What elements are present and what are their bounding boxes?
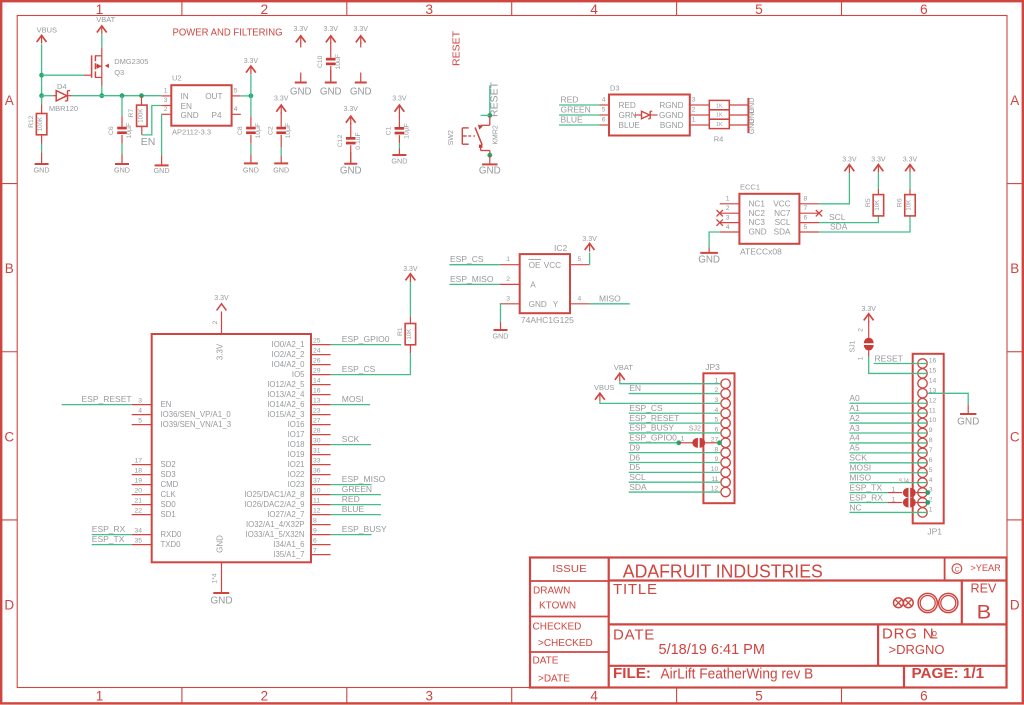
svg-text:ESP_CS: ESP_CS <box>342 364 376 374</box>
section title POWER AND FILTERING <box>173 28 283 39</box>
wire gate <box>42 74 84 76</box>
svg-text:3.3V: 3.3V <box>842 157 857 164</box>
svg-text:12: 12 <box>929 397 937 404</box>
frame row ticks left <box>1 184 17 520</box>
svg-text:16: 16 <box>929 358 937 365</box>
svg-text:35: 35 <box>134 537 142 544</box>
svg-text:1: 1 <box>681 436 685 443</box>
svg-text:D3: D3 <box>610 84 620 93</box>
svg-text:6: 6 <box>920 2 928 17</box>
svg-text:5: 5 <box>234 87 238 94</box>
svg-text:EN: EN <box>141 136 156 148</box>
ground under C10 <box>320 70 342 98</box>
net label BLUE <box>331 504 381 514</box>
svg-text:2: 2 <box>261 689 269 704</box>
svg-text:5: 5 <box>138 417 142 424</box>
ground under C6 <box>114 154 130 174</box>
svg-text:GGND: GGND <box>659 111 684 120</box>
jumper SJ1 <box>850 306 877 360</box>
wire ECC1 GND <box>709 232 720 248</box>
title block DATE value <box>613 626 765 658</box>
svg-text:1: 1 <box>929 507 933 514</box>
svg-text:ESP_CS: ESP_CS <box>450 254 484 264</box>
svg-text:10K: 10K <box>407 329 413 340</box>
svg-text:ESP_BUSY: ESP_BUSY <box>629 423 674 433</box>
svg-text:R5: R5 <box>865 198 872 207</box>
svg-text:2: 2 <box>164 106 168 113</box>
svg-text:22: 22 <box>134 507 142 514</box>
svg-text:IO25/DAC1/A2_8: IO25/DAC1/A2_8 <box>244 490 304 499</box>
title block CHECKED cell <box>533 621 593 649</box>
svg-text:R1: R1 <box>397 327 404 336</box>
ground under C2 <box>273 156 289 174</box>
op-amp U2 AP2112-3.3 <box>161 74 240 137</box>
svg-text:3.3V: 3.3V <box>344 106 359 113</box>
svg-text:36: 36 <box>313 467 321 474</box>
svg-text:REV: REV <box>971 581 997 596</box>
svg-text:24: 24 <box>313 347 321 354</box>
svg-text:C: C <box>955 567 960 574</box>
svg-text:1: 1 <box>692 117 696 124</box>
svg-text:ESP_BUSY: ESP_BUSY <box>342 524 387 534</box>
svg-text:SD3: SD3 <box>161 470 176 479</box>
capacitor C2 10uF <box>267 96 292 157</box>
net label ESP_RX at JP1 with jumper <box>849 492 930 507</box>
svg-text:ESP_MISO: ESP_MISO <box>342 474 386 484</box>
svg-text:10: 10 <box>929 417 937 424</box>
svg-text:SJ2: SJ2 <box>689 426 701 433</box>
svg-text:GND: GND <box>243 165 259 174</box>
svg-text:VCC: VCC <box>773 199 790 208</box>
net label ESP_BUSY <box>331 524 387 534</box>
svg-text:12: 12 <box>313 507 321 514</box>
svg-text:GND: GND <box>957 417 979 428</box>
svg-text:VBUS: VBUS <box>594 383 614 392</box>
svg-text:A: A <box>530 281 536 290</box>
svg-text:PAGE: 1/1: PAGE: 1/1 <box>912 666 985 682</box>
svg-text:>YEAR: >YEAR <box>970 563 1001 573</box>
svg-text:GND: GND <box>698 255 720 266</box>
title block REV cell <box>971 581 997 624</box>
svg-text:3: 3 <box>692 97 696 104</box>
svg-text:D: D <box>1010 598 1020 613</box>
svg-text:VCC: VCC <box>544 261 561 270</box>
svg-text:POWER AND FILTERING: POWER AND FILTERING <box>173 28 283 39</box>
svg-text:1: 1 <box>96 689 104 704</box>
wire Q3 drain to node <box>101 86 103 96</box>
svg-text:10µF: 10µF <box>126 123 133 139</box>
supply VBAT <box>96 15 115 34</box>
frame column labels top <box>96 2 928 17</box>
svg-text:KTOWN: KTOWN <box>539 601 576 612</box>
svg-text:SCL: SCL <box>829 212 846 222</box>
svg-text:P4: P4 <box>212 111 222 120</box>
net label RED <box>331 494 381 504</box>
svg-text:8: 8 <box>929 437 933 444</box>
svg-text:SCK: SCK <box>342 434 360 444</box>
svg-text:3.3V: 3.3V <box>871 157 886 164</box>
svg-text:3.3V: 3.3V <box>216 343 225 360</box>
net label SDA at JP3 <box>629 482 721 492</box>
capacitor C10 10uF <box>317 26 342 82</box>
svg-text:GND: GND <box>154 166 170 175</box>
svg-text:A0: A0 <box>849 393 860 403</box>
net label RED at D3 <box>559 95 600 105</box>
net label SCL at JP3 <box>629 472 721 482</box>
svg-text:ESP_GPIO0: ESP_GPIO0 <box>629 433 677 443</box>
svg-text:3.3V: 3.3V <box>354 26 369 33</box>
title block DRG cell <box>882 625 944 657</box>
svg-text:3: 3 <box>425 689 433 704</box>
svg-text:C12: C12 <box>337 135 344 148</box>
svg-text:GND: GND <box>749 228 767 237</box>
svg-text:MISO: MISO <box>849 472 871 482</box>
svg-text:IO32/A1_4/X32P: IO32/A1_4/X32P <box>246 520 305 529</box>
svg-text:1: 1 <box>506 256 510 263</box>
svg-text:C2: C2 <box>267 126 274 135</box>
svg-text:SJ1: SJ1 <box>850 340 857 352</box>
net label BLUE at D3 <box>559 115 600 125</box>
svg-text:3.3V: 3.3V <box>244 58 259 65</box>
svg-text:ESP_RX: ESP_RX <box>92 524 126 534</box>
svg-text:4: 4 <box>726 224 730 231</box>
svg-text:DRG N: DRG N <box>882 625 934 642</box>
svg-text:MOSI: MOSI <box>849 463 871 473</box>
svg-text:10uF: 10uF <box>335 54 342 70</box>
svg-text:4: 4 <box>138 407 142 414</box>
supply VBUS <box>37 25 57 43</box>
svg-text:27: 27 <box>313 417 321 424</box>
svg-text:ISSUE: ISSUE <box>552 564 587 575</box>
net label ESP_BUSY at JP3 <box>629 423 721 433</box>
svg-text:GND: GND <box>34 165 50 174</box>
svg-text:1K: 1K <box>716 122 723 128</box>
supply 3.3V stub A <box>294 26 309 47</box>
net label MOSI <box>331 394 371 404</box>
title block DATE cell <box>533 656 571 685</box>
svg-text:18: 18 <box>134 467 142 474</box>
svg-text:17: 17 <box>134 457 142 464</box>
svg-text:IO23: IO23 <box>288 480 305 489</box>
net label ESP_RESET <box>62 394 132 404</box>
wire ECC1 VCC to 3.3V <box>819 173 849 204</box>
svg-text:GND: GND <box>747 118 756 134</box>
svg-text:DMG2305: DMG2305 <box>114 57 148 66</box>
svg-text:2: 2 <box>212 320 219 324</box>
ground at module bottom <box>210 562 232 606</box>
net label SCK <box>331 434 372 444</box>
svg-text:2: 2 <box>506 276 510 283</box>
ground under SW2 <box>479 155 501 176</box>
svg-text:SW2: SW2 <box>448 130 455 145</box>
svg-text:NC3: NC3 <box>749 218 766 227</box>
svg-text:4: 4 <box>590 689 598 704</box>
wire R7 to U2 EN <box>142 106 162 135</box>
svg-text:SJ4: SJ4 <box>899 479 910 485</box>
svg-text:ESP_RESET: ESP_RESET <box>82 394 132 404</box>
ground under C8 <box>243 155 259 175</box>
ground under C1 <box>391 149 407 166</box>
svg-text:R7: R7 <box>128 109 135 118</box>
svg-text:3.3V: 3.3V <box>294 26 309 33</box>
svg-text:3.3V: 3.3V <box>403 266 418 273</box>
node R7 junction <box>139 93 144 98</box>
svg-text:GND: GND <box>114 165 130 174</box>
svg-text:IO17: IO17 <box>288 430 305 439</box>
svg-text:IO12/A2_5: IO12/A2_5 <box>267 380 305 389</box>
svg-text:BLUE: BLUE <box>342 504 365 514</box>
svg-text:4: 4 <box>234 106 238 113</box>
supply 3.3V at ECC1 <box>842 157 857 173</box>
svg-text:>DATE: >DATE <box>538 673 570 684</box>
svg-text:C: C <box>4 429 14 444</box>
svg-text:IN: IN <box>181 92 189 101</box>
svg-text:IO21: IO21 <box>288 460 305 469</box>
svg-text:15: 15 <box>929 368 937 375</box>
title block frame <box>530 558 1007 688</box>
svg-text:8: 8 <box>804 196 808 203</box>
net label ESP_RESET at JP3 <box>629 413 721 423</box>
svg-text:3.3V: 3.3V <box>903 157 918 164</box>
svg-text:GND: GND <box>529 300 547 309</box>
svg-text:4: 4 <box>602 97 606 104</box>
resistor array R4 1K <box>699 100 748 143</box>
svg-text:ESP_MISO: ESP_MISO <box>450 274 494 284</box>
net label A3 at JP1 <box>849 423 927 433</box>
ground under ECC1 <box>698 248 720 266</box>
net label ESP_MISO <box>331 474 386 484</box>
svg-text:DATE: DATE <box>613 626 655 643</box>
svg-text:ESP_GPIO0: ESP_GPIO0 <box>342 334 390 344</box>
node SW2 top junction <box>487 113 492 118</box>
svg-text:GREEN: GREEN <box>561 105 591 115</box>
net label ESP_CS at JP3 <box>629 403 721 413</box>
net label ESP_TX <box>92 534 132 544</box>
svg-text:RED: RED <box>561 95 579 105</box>
svg-text:BGND: BGND <box>660 121 684 130</box>
title block logo <box>894 593 958 612</box>
svg-text:ESP_CS: ESP_CS <box>629 403 663 413</box>
svg-text:1*4: 1*4 <box>212 573 219 583</box>
svg-text:5: 5 <box>755 689 763 704</box>
svg-text:33: 33 <box>313 457 321 464</box>
svg-text:IO5: IO5 <box>292 370 305 379</box>
svg-text:5: 5 <box>602 107 606 114</box>
svg-text:A: A <box>1010 93 1019 108</box>
net label ESP_RX <box>92 524 132 534</box>
frame column ticks bottom <box>182 688 842 705</box>
svg-text:GND: GND <box>210 595 232 606</box>
module left pins <box>132 397 232 549</box>
title block company name <box>623 561 823 581</box>
frame row labels left <box>4 93 14 612</box>
frame row labels right <box>1010 93 1020 612</box>
svg-text:3.3V: 3.3V <box>861 306 876 313</box>
supply 3.3V at R6 <box>903 157 918 173</box>
svg-text:29: 29 <box>313 367 321 374</box>
capacitor C8 10uF <box>237 96 262 155</box>
svg-text:IO15/A2_3: IO15/A2_3 <box>267 410 304 419</box>
node OUT junction <box>249 93 254 98</box>
svg-text:28: 28 <box>313 427 321 434</box>
capacitor C1 10uF <box>386 96 411 149</box>
svg-text:GND: GND <box>273 165 289 174</box>
svg-text:IO27/A2_7: IO27/A2_7 <box>267 510 304 519</box>
svg-text:ECC1: ECC1 <box>740 182 760 191</box>
op-amp ECC1 ATECCx08 <box>717 182 823 256</box>
svg-text:IO19: IO19 <box>288 450 305 459</box>
net label D9 at JP3 <box>629 442 721 452</box>
svg-text:MBR120: MBR120 <box>49 104 78 113</box>
net label ESP_GPIO0 at JP3 with jumper SJ2 <box>629 433 722 448</box>
svg-text:21: 21 <box>134 497 142 504</box>
resistor R7 100K <box>128 96 147 135</box>
svg-text:RESET: RESET <box>875 353 903 363</box>
node C6 junction <box>120 93 125 98</box>
switch SW2 KMR2 <box>448 115 500 155</box>
net label A4 at JP1 <box>849 433 927 443</box>
svg-text:26: 26 <box>313 357 321 364</box>
op-amp IC2 74AHC1G125 <box>500 243 590 325</box>
svg-text:0.1uF: 0.1uF <box>355 132 362 149</box>
svg-text:11: 11 <box>313 497 320 504</box>
section title RESET <box>451 30 463 66</box>
svg-text:B: B <box>977 603 992 624</box>
svg-text:U2: U2 <box>172 74 182 83</box>
svg-text:6: 6 <box>920 689 928 704</box>
svg-text:EN: EN <box>181 102 192 111</box>
frame row ticks right <box>1007 184 1023 520</box>
svg-text:3: 3 <box>506 295 510 302</box>
svg-text:TXD0: TXD0 <box>161 540 182 549</box>
net label GREEN <box>331 484 381 494</box>
supply VBUS at JP3 <box>594 383 614 401</box>
svg-text:1: 1 <box>164 87 168 94</box>
svg-text:D9: D9 <box>629 442 640 452</box>
svg-text:A2: A2 <box>849 413 860 423</box>
ground under R12 <box>34 153 50 175</box>
net label ESP_MISO at IC2 <box>449 274 519 285</box>
wire U2 OUT <box>241 95 251 97</box>
svg-text:Y: Y <box>553 300 559 309</box>
supply 3.3V at R5 <box>871 157 886 173</box>
net label ESP_GPIO0 <box>331 334 402 344</box>
net label NC at JP1 <box>849 502 927 512</box>
svg-text:GREEN: GREEN <box>342 484 372 494</box>
svg-text:ESP_RESET: ESP_RESET <box>629 413 679 423</box>
svg-text:14: 14 <box>313 377 321 384</box>
svg-text:4: 4 <box>929 477 933 484</box>
svg-text:KMR2: KMR2 <box>493 125 500 145</box>
svg-text:B: B <box>1010 261 1019 276</box>
svg-text:7: 7 <box>929 447 933 454</box>
svg-text:VBAT: VBAT <box>96 15 115 24</box>
net label RESET vertical <box>489 81 501 117</box>
svg-text:10µF: 10µF <box>255 123 262 139</box>
svg-text:1: 1 <box>858 356 865 360</box>
svg-text:NC2: NC2 <box>749 209 766 218</box>
svg-text:MISO: MISO <box>599 293 621 303</box>
svg-text:DRAWN: DRAWN <box>533 586 570 597</box>
supply 3.3V at IC2 VCC <box>582 236 597 265</box>
svg-text:IO18: IO18 <box>288 440 305 449</box>
svg-text:R12: R12 <box>28 115 35 128</box>
net label GREEN at D3 <box>559 105 600 115</box>
svg-text:4: 4 <box>578 295 582 302</box>
svg-text:3.3V: 3.3V <box>324 26 339 33</box>
net label ESP_CS wire to R1 <box>331 353 411 374</box>
svg-text:BLUE: BLUE <box>561 115 584 125</box>
svg-text:GND: GND <box>340 166 362 177</box>
ground under U2 <box>154 156 170 176</box>
svg-text:16: 16 <box>313 387 321 394</box>
wire SDA <box>819 217 910 233</box>
wire SJ1 to JP1 pin15 <box>869 357 928 374</box>
svg-text:GND: GND <box>350 87 372 98</box>
svg-text:>CHECKED: >CHECKED <box>538 638 593 649</box>
svg-text:3: 3 <box>164 97 168 104</box>
svg-text:2: 2 <box>261 2 269 17</box>
svg-text:RXD0: RXD0 <box>161 530 182 539</box>
svg-text:SD2: SD2 <box>161 460 176 469</box>
svg-text:9: 9 <box>313 527 317 534</box>
svg-text:Q3: Q3 <box>114 68 124 77</box>
svg-text:RED: RED <box>619 101 636 110</box>
svg-text:ADAFRUIT INDUSTRIES: ADAFRUIT INDUSTRIES <box>623 561 823 581</box>
svg-text:3: 3 <box>726 214 730 221</box>
wire D4 to U2 IN <box>72 95 162 97</box>
svg-text:25: 25 <box>313 337 321 344</box>
svg-text:IO4/A2_0: IO4/A2_0 <box>272 360 306 369</box>
svg-text:GND: GND <box>181 111 199 120</box>
svg-text:2: 2 <box>858 328 865 332</box>
svg-text:3.3V: 3.3V <box>582 236 597 243</box>
svg-text:ESP_RX: ESP_RX <box>849 492 883 502</box>
net label MISO at JP1 <box>849 472 927 482</box>
svg-text:34: 34 <box>134 527 142 534</box>
resistor R5 10K <box>865 173 884 217</box>
title block copyright year <box>952 563 1001 574</box>
wire JP1 pin13 to ground <box>927 393 968 404</box>
svg-text:3.3V: 3.3V <box>274 96 289 103</box>
svg-text:A4: A4 <box>849 433 860 443</box>
svg-text:C1: C1 <box>386 126 393 135</box>
wire VBUS to gate junction <box>41 44 43 95</box>
svg-text:EN: EN <box>629 383 641 393</box>
svg-text:DATE: DATE <box>533 656 559 667</box>
svg-text:5: 5 <box>929 467 933 474</box>
capacitor C6 10uF <box>108 96 133 154</box>
svg-text:D5: D5 <box>629 462 640 472</box>
svg-text:CHECKED: CHECKED <box>533 621 582 632</box>
op-amp U1 ESP32 module <box>152 334 311 562</box>
svg-text:GND: GND <box>290 87 312 98</box>
wire VBUS to JP3 pin3 <box>600 402 721 404</box>
ground stub A <box>290 73 312 98</box>
svg-text:C8: C8 <box>237 126 244 135</box>
svg-text:GND: GND <box>479 165 501 176</box>
svg-text:SDA: SDA <box>629 482 647 492</box>
ground under C12 <box>340 152 362 177</box>
svg-text:2: 2 <box>692 107 696 114</box>
svg-text:6: 6 <box>313 537 317 544</box>
svg-text:C: C <box>1010 429 1020 444</box>
svg-text:7: 7 <box>313 547 317 554</box>
svg-text:NC1: NC1 <box>749 199 766 208</box>
transistor Q3 DMG2305 <box>83 48 148 86</box>
title block TITLE label <box>613 581 658 598</box>
svg-text:19: 19 <box>134 477 142 484</box>
